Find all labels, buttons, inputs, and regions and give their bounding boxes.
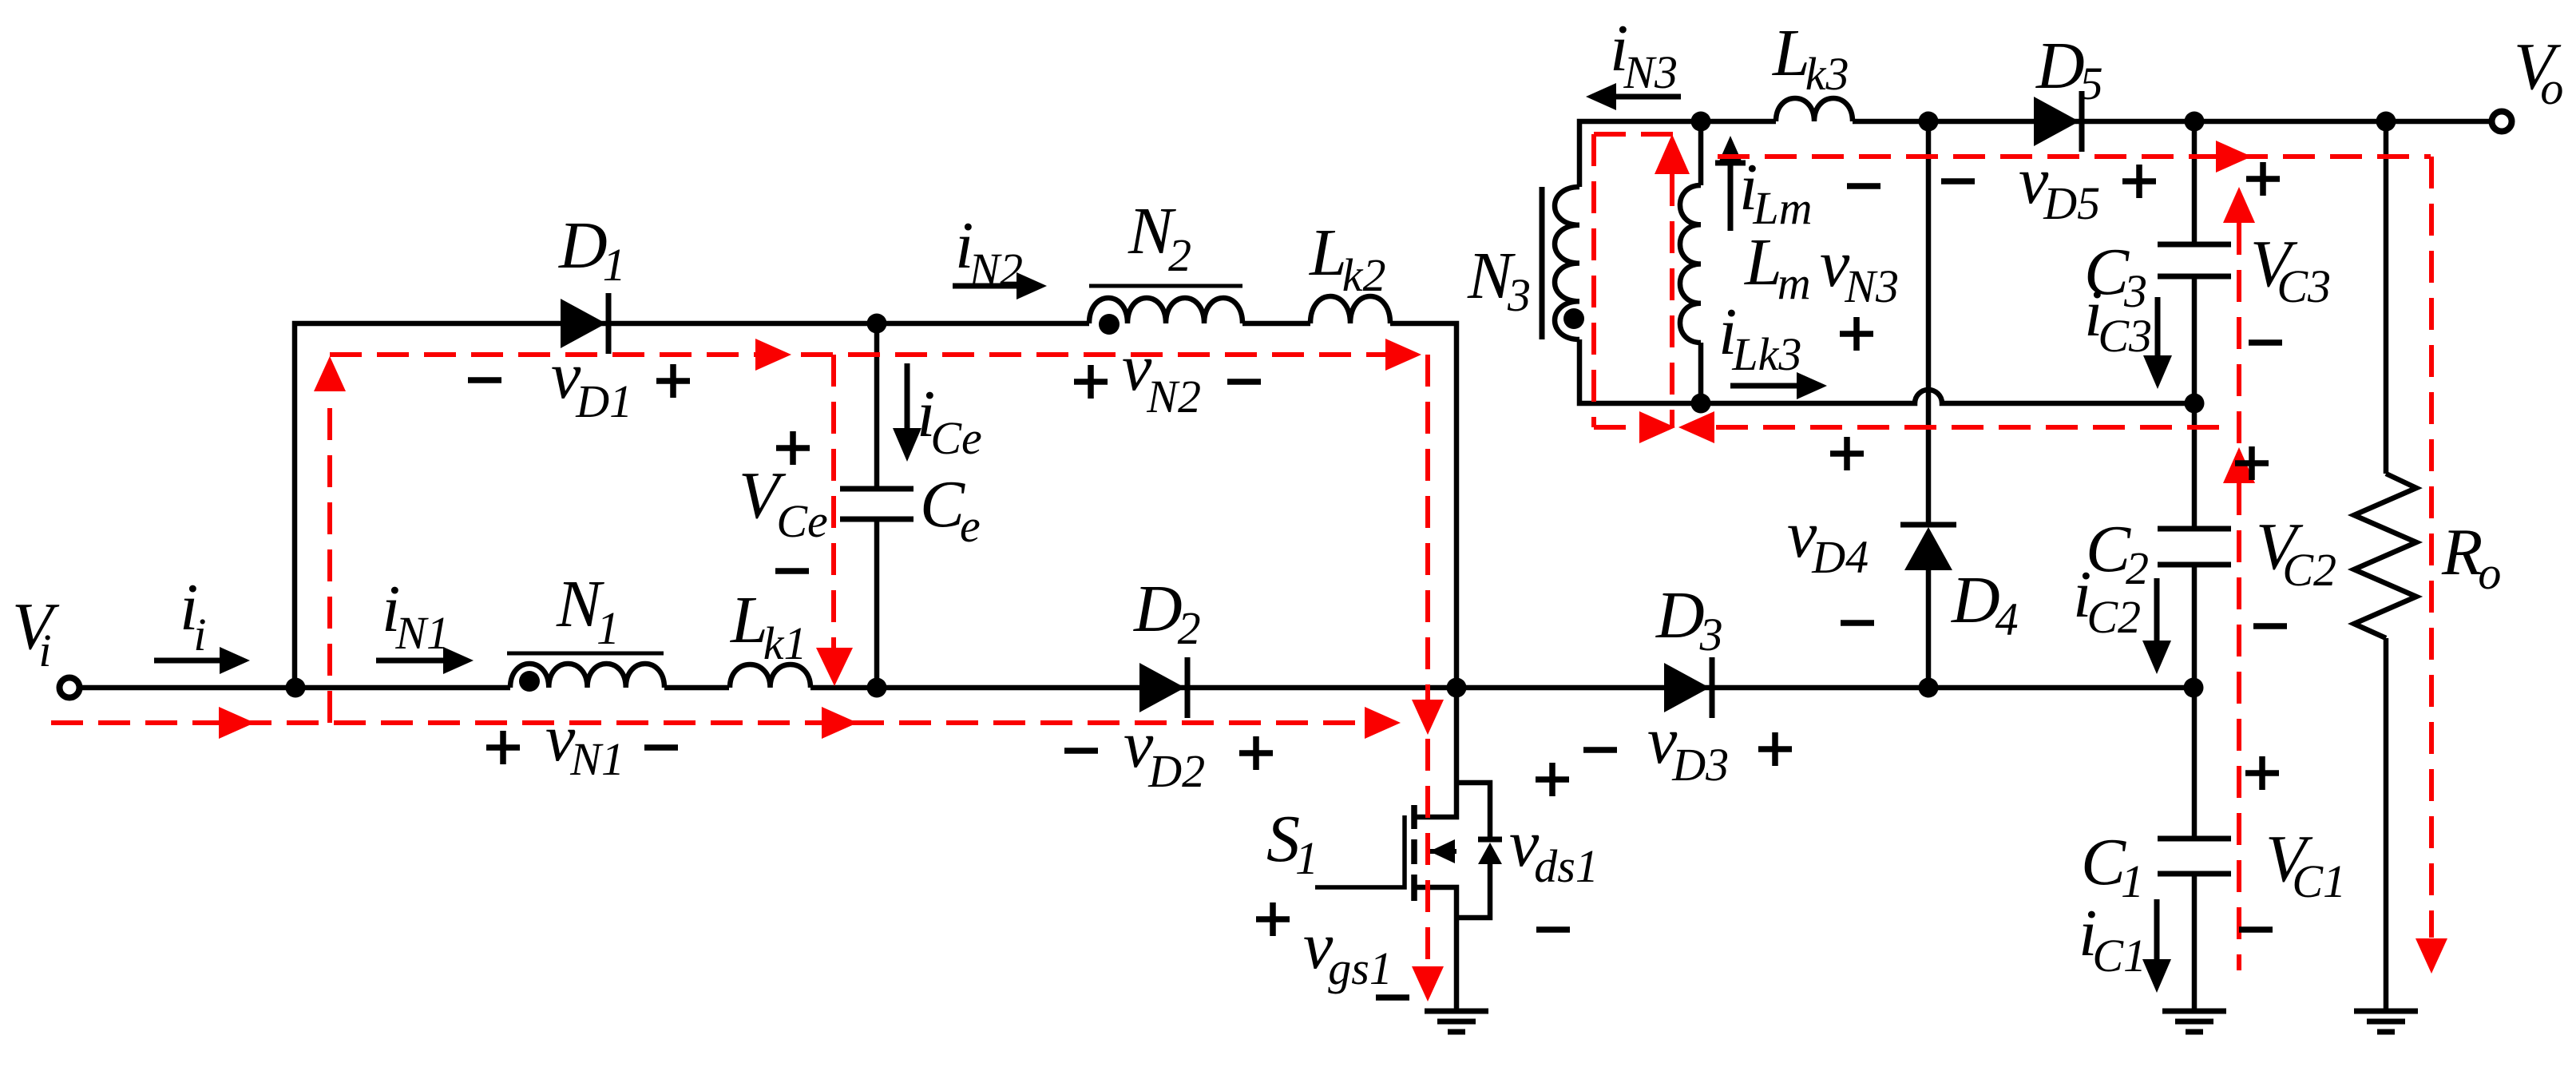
- wire red dashed transformer loop right vertical: [1670, 174, 1674, 427]
- plus of v_D5: [2122, 165, 2156, 198]
- plus of v_D2: [1239, 736, 1273, 770]
- wire red dashed transformer loop left vertical: [1591, 134, 1596, 427]
- svg-text:S1: S1: [1266, 802, 1318, 884]
- transistor S1 gate lead: [1315, 815, 1405, 887]
- svg-text:vN1: vN1: [545, 701, 624, 785]
- diode D3 on main rail: [1664, 663, 1710, 712]
- red arrow down crossing main rail at S1: [1412, 700, 1444, 735]
- polarity dot of N3: [1563, 308, 1584, 329]
- red arrow on lower path before S1 branch: [1365, 707, 1401, 739]
- red arrow down at end of output loop: [2415, 938, 2447, 974]
- arrow i_N3 current direction pointing left: [1615, 94, 1681, 100]
- resistor Ro zigzag: [2354, 474, 2416, 638]
- svg-text:iLm: iLm: [1739, 150, 1813, 234]
- wire Ro bottom lead to ground: [2384, 638, 2389, 1011]
- arrow i_Ce current direction: [905, 363, 910, 431]
- wire red dashed vertical through S1 upper part: [1425, 355, 1430, 700]
- red arrow down at S1 ground: [1412, 966, 1444, 1002]
- svg-text:D4: D4: [1951, 563, 2019, 645]
- plus of V_C1: [2245, 756, 2279, 790]
- svg-text:vN2: vN2: [1122, 331, 1201, 422]
- node Lm bottom on transformer bottom rail: [1691, 394, 1711, 414]
- node C3 bottom junction: [2185, 394, 2205, 414]
- transformer N3 core bar: [1540, 187, 1545, 339]
- wire red dashed branch down to main rail at Ce: [831, 355, 836, 652]
- svg-text:VC2: VC2: [2256, 510, 2336, 596]
- svg-text:iC1: iC1: [2079, 896, 2146, 982]
- wire red dashed vertical through S1 to ground: [1425, 739, 1430, 966]
- svg-text:D2: D2: [1133, 572, 1201, 654]
- svg-text:Lk3: Lk3: [1772, 16, 1849, 100]
- plus of v_N2: [1074, 365, 1108, 399]
- ground under Ro: [2354, 1009, 2418, 1014]
- capacitor Ce plates: [840, 486, 913, 492]
- wire transformer bottom rail with crossover hop to C3 bottom node: [1579, 339, 2194, 403]
- diode D2 on main rail: [1139, 663, 1185, 712]
- wire between N2 and Lk2: [1242, 321, 1310, 327]
- wire from top rail node down to D4: [1926, 121, 1932, 525]
- polarity dot of N2: [1099, 314, 1120, 335]
- inductor Lk3 winding (2 humps): [1776, 98, 1853, 121]
- svg-text:D1: D1: [558, 208, 626, 291]
- red arrow on lower path near Vi: [219, 707, 255, 739]
- wire Ce capacitor top lead: [874, 323, 880, 489]
- node D1-N2-Ce junction: [867, 314, 887, 334]
- arrow i_C1 current direction: [2154, 899, 2160, 963]
- minus of v_N2: [1227, 379, 1261, 385]
- wire red dashed transformer loop top: [1594, 132, 1682, 137]
- svg-text:VC3: VC3: [2250, 227, 2331, 312]
- inductor N2 winding (coupled winding, 4 humps): [1089, 298, 1242, 323]
- wire C1 top lead from main rail: [2192, 688, 2198, 839]
- polarity dot of N1: [519, 671, 540, 692]
- minus of V_Ce: [775, 568, 809, 574]
- node D4 anode on main rail: [1919, 678, 1939, 698]
- capacitor C1 plates: [2158, 836, 2231, 842]
- diode D1 on top-left wire: [561, 299, 606, 348]
- inductor Lk1 winding (2 humps): [730, 664, 810, 688]
- red arrow on lower path before Ce branch: [822, 707, 858, 739]
- svg-text:vgs1: vgs1: [1303, 909, 1393, 994]
- svg-text:Vi: Vi: [12, 589, 60, 676]
- svg-text:Lk1: Lk1: [730, 583, 806, 669]
- inductor Lm winding (4 vertical humps): [1680, 185, 1701, 343]
- inductor N3 winding (4 vertical humps): [1555, 187, 1579, 339]
- minus of v_D1: [468, 377, 501, 383]
- svg-text:Vo: Vo: [2514, 30, 2563, 114]
- red arrow up at top of C3 branch: [2223, 187, 2255, 223]
- plus of v_D3: [1758, 732, 1792, 766]
- red arrow on D1 path toward Ce: [755, 339, 791, 371]
- red arrow left at bottom of transformer loop: [1678, 411, 1714, 443]
- capacitor C3 plates: [2158, 242, 2231, 248]
- svg-text:D3: D3: [1655, 578, 1723, 660]
- node Lm top on transformer rail: [1691, 112, 1711, 132]
- wire from C3 node down to C2: [2192, 403, 2198, 529]
- svg-text:N3: N3: [1467, 239, 1531, 321]
- node input junction on main rail: [286, 678, 306, 698]
- red arrow up along C2 branch: [2223, 447, 2255, 483]
- svg-text:iN2: iN2: [955, 208, 1023, 296]
- minus of V_C3: [2249, 339, 2282, 346]
- body diode of S1 branch wiring: [1456, 783, 1490, 918]
- transistor S1 source stub and lead to ground: [1413, 887, 1456, 1011]
- plus of V_C3: [2246, 162, 2280, 196]
- node Ce to main rail: [867, 678, 887, 698]
- terminal Vi: [60, 678, 80, 698]
- wire red dashed vertical along C2/C1 to bottom: [2237, 483, 2241, 970]
- inductor Lk2 winding (2 humps): [1310, 296, 1390, 323]
- node D4/D5 junction on top rail: [1919, 112, 1939, 132]
- body diode of S1: [1478, 843, 1502, 864]
- wire red dashed vertical along C3: [2237, 223, 2241, 444]
- plus of v_gs1: [1256, 902, 1290, 936]
- wire C3 bottom lead to transformer bottom rail node: [2192, 276, 2198, 403]
- wire Ro top lead from top rail: [2384, 121, 2389, 474]
- wire red dashed top-left horizontal under D1/N2: [330, 352, 1388, 357]
- terminal Vo: [2492, 112, 2512, 132]
- svg-text:iCe: iCe: [917, 377, 982, 464]
- wire red dashed transformer loop bottom to C3 path: [1594, 425, 1639, 430]
- minus of v_N3: [1847, 183, 1880, 189]
- wire C1 bottom lead to ground: [2192, 874, 2198, 1011]
- plus of V_C2: [2235, 446, 2269, 480]
- node Ro top on top rail: [2376, 112, 2396, 132]
- node S1 drain on main rail: [1447, 678, 1467, 698]
- diode D5 on top rail: [2034, 97, 2079, 146]
- red arrow down onto main rail: [816, 648, 853, 686]
- node C3 top on top rail: [2185, 112, 2205, 132]
- wire main bottom rail from Lk1 to C1/C2 junction: [810, 685, 2194, 691]
- wire from D4 down to main rail: [1926, 570, 1932, 688]
- minus of V_C1: [2239, 926, 2273, 933]
- svg-text:N1: N1: [556, 567, 620, 654]
- arrow i_N1 current direction: [376, 658, 446, 664]
- minus of v_D5: [1941, 178, 1975, 184]
- plus of v_D1: [656, 364, 690, 398]
- wire main bottom rail from Vi to C1 node: [80, 685, 510, 691]
- minus of v_D3: [1583, 747, 1617, 753]
- transistor S1 drain lead from main rail: [1413, 688, 1456, 817]
- svg-text:vds1: vds1: [1509, 807, 1599, 892]
- bar over N2 winding: [1089, 284, 1242, 288]
- svg-text:N2: N2: [1127, 194, 1191, 281]
- wire Lm bottom lead to transformer bottom rail: [1698, 343, 1704, 403]
- ground under C1: [2162, 1009, 2226, 1014]
- plus of v_D4: [1830, 437, 1864, 470]
- transistor S1 channel bar segments: [1411, 805, 1417, 901]
- minus of v_gs1: [1376, 994, 1409, 1001]
- wire red dashed top-right horizontal to output: [1718, 154, 2431, 159]
- arrow i_Lk3 current direction: [1730, 383, 1798, 389]
- svg-text:vD1: vD1: [551, 339, 632, 427]
- red arrow up inside transformer loop: [1655, 134, 1690, 174]
- wire Ce capacitor bottom lead: [874, 519, 880, 688]
- svg-text:iN1: iN1: [382, 572, 450, 659]
- svg-text:D5: D5: [2035, 29, 2103, 109]
- arrow i_i current direction: [154, 658, 222, 664]
- ground under S1: [1425, 1009, 1488, 1014]
- svg-text:vN3: vN3: [1820, 227, 1899, 312]
- minus of v_D4: [1841, 620, 1874, 626]
- svg-text:vD4: vD4: [1787, 498, 1869, 583]
- svg-text:iN3: iN3: [1610, 11, 1678, 98]
- svg-text:VC1: VC1: [2265, 822, 2346, 907]
- transistor S1 body stub with arrow into channel: [1429, 849, 1456, 854]
- svg-text:C2: C2: [2086, 512, 2149, 594]
- svg-text:ii: ii: [180, 570, 206, 660]
- plus of v_N3: [1840, 317, 1873, 351]
- minus of v_N1: [644, 744, 678, 751]
- red arrow right at bottom of transformer loop: [1639, 411, 1675, 443]
- minus of V_C2: [2253, 623, 2287, 629]
- inductor Lm winding vertical top lead: [1698, 121, 1704, 185]
- wire between N1 and Lk1: [664, 685, 729, 691]
- minus of v_ds1: [1536, 926, 1570, 933]
- svg-text:vD3: vD3: [1647, 704, 1729, 791]
- svg-text:C1: C1: [2081, 825, 2144, 907]
- arrow i_C2 current direction: [2154, 578, 2160, 645]
- wire red dashed lower loop along main rail: [51, 720, 1365, 725]
- svg-text:Ce: Ce: [920, 467, 981, 552]
- red arrow right on output path: [2216, 141, 2252, 173]
- svg-text:Lm: Lm: [1744, 225, 1811, 309]
- plus of v_N1: [486, 731, 520, 764]
- plus of V_Ce: [776, 431, 810, 465]
- arrow i_N2 current direction: [953, 284, 1019, 289]
- red arrow at end of N2 path: [1385, 339, 1421, 371]
- svg-text:Ro: Ro: [2441, 515, 2501, 599]
- wire top row from Lk2 turning down the right vertical of N2 loop to main rail: [1390, 323, 1456, 688]
- plus of v_ds1: [1536, 763, 1569, 796]
- wire red dashed right vertical along Ro: [2429, 157, 2434, 938]
- capacitor C2 plates: [2158, 526, 2231, 532]
- node C2/C1 junction on main rail: [2184, 678, 2204, 698]
- wire transformer N3 left vertical top segment joining top rail: [1579, 121, 1776, 187]
- svg-text:Lk2: Lk2: [1309, 216, 1385, 301]
- minus of v_D2: [1064, 748, 1098, 754]
- arrow i_C3 current direction: [2155, 297, 2161, 359]
- red arrow up into D1 path: [314, 356, 346, 391]
- inductor N1 winding (coupled winding, 4 humps): [510, 664, 664, 688]
- wire C3 top lead from top rail: [2192, 121, 2198, 244]
- diode D4 pointing up: [1904, 527, 1952, 570]
- svg-text:VCe: VCe: [739, 458, 828, 547]
- wire red dashed left vertical of D1 loop: [327, 393, 332, 723]
- wire top rail from Lk3 through D5 to Vo terminal: [1853, 119, 2491, 125]
- wire left vertical from input node up to D1 and top-left horizontal to Ce node: [295, 323, 1089, 688]
- arrow i_Lm current direction pointing up: [1728, 165, 1734, 231]
- wire C2 bottom lead to main rail node: [2192, 565, 2198, 688]
- bar over N1 winding: [507, 652, 664, 656]
